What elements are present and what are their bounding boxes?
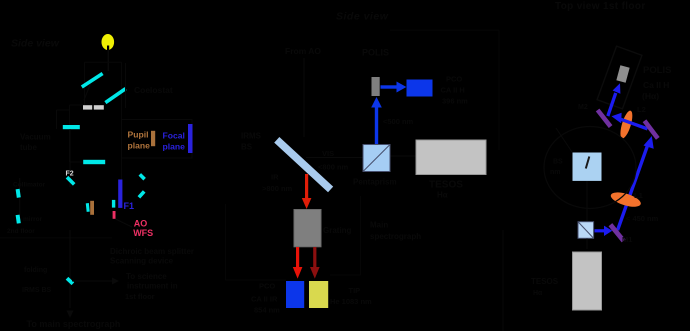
wire filter to cube xyxy=(586,181,588,221)
beamsplitter cube xyxy=(363,145,390,172)
mirror M2 xyxy=(105,89,125,103)
wire frame top xyxy=(85,61,122,63)
detector yellow xyxy=(309,281,328,308)
svg-text:WFS: WFS xyxy=(133,228,153,238)
svg-text:Vacuum: Vacuum xyxy=(20,133,51,142)
fold mirror gray xyxy=(372,77,380,96)
svg-text:instrument in: instrument in xyxy=(127,282,178,291)
svg-text:Coelostat: Coelostat xyxy=(134,85,173,95)
detector blue xyxy=(286,281,304,308)
wire room bottom right xyxy=(330,274,361,276)
svg-text:2nd floor: 2nd floor xyxy=(7,228,35,235)
wire window box left xyxy=(56,110,58,129)
fold mirror purple P1 xyxy=(598,110,611,127)
wire frame left lower xyxy=(69,105,71,162)
wire arrowhead down xyxy=(67,311,74,319)
detector box gray right xyxy=(573,252,602,310)
svg-text:Focal: Focal xyxy=(163,130,185,140)
arrow dark red right xyxy=(310,247,320,279)
arrow blue up xyxy=(371,97,382,144)
arrow red left xyxy=(293,247,303,279)
camera outline xyxy=(597,46,642,109)
svg-text:Side view: Side view xyxy=(336,11,389,23)
svg-text:To science: To science xyxy=(126,272,167,281)
mirror M9 xyxy=(112,200,115,208)
wire cube to detector xyxy=(586,239,588,250)
wire frame bottom xyxy=(70,161,84,163)
wire room bottom left xyxy=(226,279,287,281)
svg-text:CA II IR: CA II IR xyxy=(251,295,278,304)
wire tube outer xyxy=(125,63,127,108)
mirror M5 xyxy=(67,177,74,184)
arrow cube to P3 xyxy=(595,226,613,236)
svg-text:plane: plane xyxy=(128,140,151,150)
beamsplitter cube small xyxy=(578,222,594,239)
svg-text:plane: plane xyxy=(163,141,186,151)
svg-text:Grating: Grating xyxy=(323,226,352,235)
svg-text:Top view 1st floor: Top view 1st floor xyxy=(555,1,646,12)
fold mirror purple P2 xyxy=(645,121,658,139)
lamp xyxy=(102,34,115,50)
arrow IR beam down xyxy=(302,174,312,209)
wire room left edge xyxy=(225,204,227,280)
focal plane bar xyxy=(188,124,193,153)
wire horizontal xyxy=(72,280,112,282)
svg-text:POLIS: POLIS xyxy=(362,48,389,58)
fold mirror purple P3 xyxy=(610,225,623,241)
svg-text:Dichroic beam splitter: Dichroic beam splitter xyxy=(110,247,194,256)
svg-text:IRMS BS: IRMS BS xyxy=(22,287,52,294)
svg-text:Main: Main xyxy=(370,221,388,230)
wire dichroic to cube xyxy=(306,157,363,159)
svg-text:F1: F1 xyxy=(124,201,135,211)
svg-text:POLIS: POLIS xyxy=(643,65,672,76)
svg-text:Pentaprism: Pentaprism xyxy=(353,178,397,187)
svg-text:CA II H: CA II H xyxy=(441,86,465,95)
svg-text:Pupil: Pupil xyxy=(128,129,149,139)
svg-text:(Hα): (Hα) xyxy=(642,91,659,101)
svg-text:AO: AO xyxy=(134,219,148,229)
svg-text:tube: tube xyxy=(20,143,37,152)
wire to AO WFS xyxy=(116,219,133,227)
svg-text:396 nm: 396 nm xyxy=(442,97,468,106)
deformable mirror bar xyxy=(90,201,94,215)
wire arrowhead xyxy=(112,278,119,285)
wire frame shelf xyxy=(70,104,84,106)
svg-text:<800 nm: <800 nm xyxy=(318,163,349,172)
wire collimator beam xyxy=(19,178,21,215)
wire floor divider xyxy=(502,230,504,331)
svg-text:He 1083 nm: He 1083 nm xyxy=(330,297,372,306)
svg-text:M1: M1 xyxy=(622,235,632,244)
wire frame right xyxy=(121,62,123,180)
wire frame left upper xyxy=(84,62,86,105)
wire beam lamp to mirror M1 xyxy=(84,80,92,100)
svg-text:M2: M2 xyxy=(578,104,588,111)
svg-text:<500 nm: <500 nm xyxy=(383,117,414,126)
beam bar3 to bar2 xyxy=(616,136,654,231)
svg-text:L2: L2 xyxy=(637,105,646,114)
svg-text:< 450 nm: < 450 nm xyxy=(626,214,659,223)
svg-text:Scanning device: Scanning device xyxy=(110,257,174,266)
wire room right edge xyxy=(360,196,362,275)
svg-text:BS: BS xyxy=(241,143,253,152)
svg-text:Ca II H: Ca II H xyxy=(643,80,669,90)
wire wall top xyxy=(390,29,499,31)
svg-text:1st floor: 1st floor xyxy=(125,292,155,301)
wire window box top xyxy=(57,109,71,111)
wire diag to filter box xyxy=(556,128,572,152)
svg-text:VIS: VIS xyxy=(322,149,334,158)
wire wall right xyxy=(498,30,500,150)
svg-text:TIP: TIP xyxy=(349,286,361,295)
svg-text:IR: IR xyxy=(271,173,279,182)
svg-text:BS: BS xyxy=(553,159,563,166)
mirror M11 xyxy=(139,191,144,197)
svg-text:PCO: PCO xyxy=(446,75,462,84)
svg-text:folding: folding xyxy=(24,267,47,274)
wire cube to bench xyxy=(390,155,416,157)
svg-text:>800 nm: >800 nm xyxy=(262,184,293,193)
svg-text:TESOS: TESOS xyxy=(531,277,559,286)
svg-text:854 nm: 854 nm xyxy=(254,306,280,315)
svg-text:TESOS: TESOS xyxy=(429,180,463,191)
wire floor line xyxy=(0,237,112,239)
wire lamp stem xyxy=(107,49,109,71)
lamp notch xyxy=(107,46,109,51)
arrow blue right xyxy=(381,82,407,93)
svg-text:IRMS: IRMS xyxy=(241,132,262,141)
beam bar2 to bar1 xyxy=(612,113,649,131)
wire down column xyxy=(69,230,71,308)
svg-text:PCO: PCO xyxy=(259,282,275,291)
svg-text:Collimator: Collimator xyxy=(13,182,46,189)
camera sensor gray xyxy=(616,65,629,83)
derotator arc faint xyxy=(544,127,636,209)
svg-text:Side view: Side view xyxy=(11,38,60,50)
svg-text:From AO: From AO xyxy=(285,46,321,56)
bench box gray xyxy=(416,140,486,175)
camera box blue xyxy=(407,80,433,97)
mirror M3 xyxy=(63,125,80,129)
svg-text:spectrograph: spectrograph xyxy=(370,232,421,241)
F1 bar xyxy=(118,180,122,208)
lens L2 orange xyxy=(609,189,642,209)
mirror M1 xyxy=(82,74,103,88)
lens L1 orange xyxy=(618,109,635,139)
svg-text:F2: F2 xyxy=(66,170,74,177)
plane box outline faint xyxy=(122,120,193,159)
mirror M7 xyxy=(16,215,21,224)
mirror M4 xyxy=(83,160,105,164)
svg-text:Hα: Hα xyxy=(437,191,448,200)
dichroic mirror xyxy=(277,140,331,190)
plate right xyxy=(94,105,104,109)
svg-text:L1: L1 xyxy=(634,191,643,200)
relay box xyxy=(294,210,321,247)
plate left xyxy=(83,105,92,109)
mirror M8 xyxy=(86,203,90,212)
filter box light blue xyxy=(573,153,602,181)
wire beam into dichroic xyxy=(303,58,305,137)
svg-text:Hα: Hα xyxy=(533,290,543,297)
beamsplitter plate crimson xyxy=(113,211,116,219)
wire column xyxy=(69,129,71,187)
svg-text:nm: nm xyxy=(550,169,561,176)
beam arrow to camera xyxy=(606,83,620,116)
mirror M6 xyxy=(16,189,21,198)
svg-text:mirror: mirror xyxy=(23,216,43,223)
pupil plane bar xyxy=(151,131,155,146)
svg-text:To main spectrograph: To main spectrograph xyxy=(27,319,121,329)
mirror M10 xyxy=(140,174,145,179)
mirror M12 xyxy=(67,278,73,284)
